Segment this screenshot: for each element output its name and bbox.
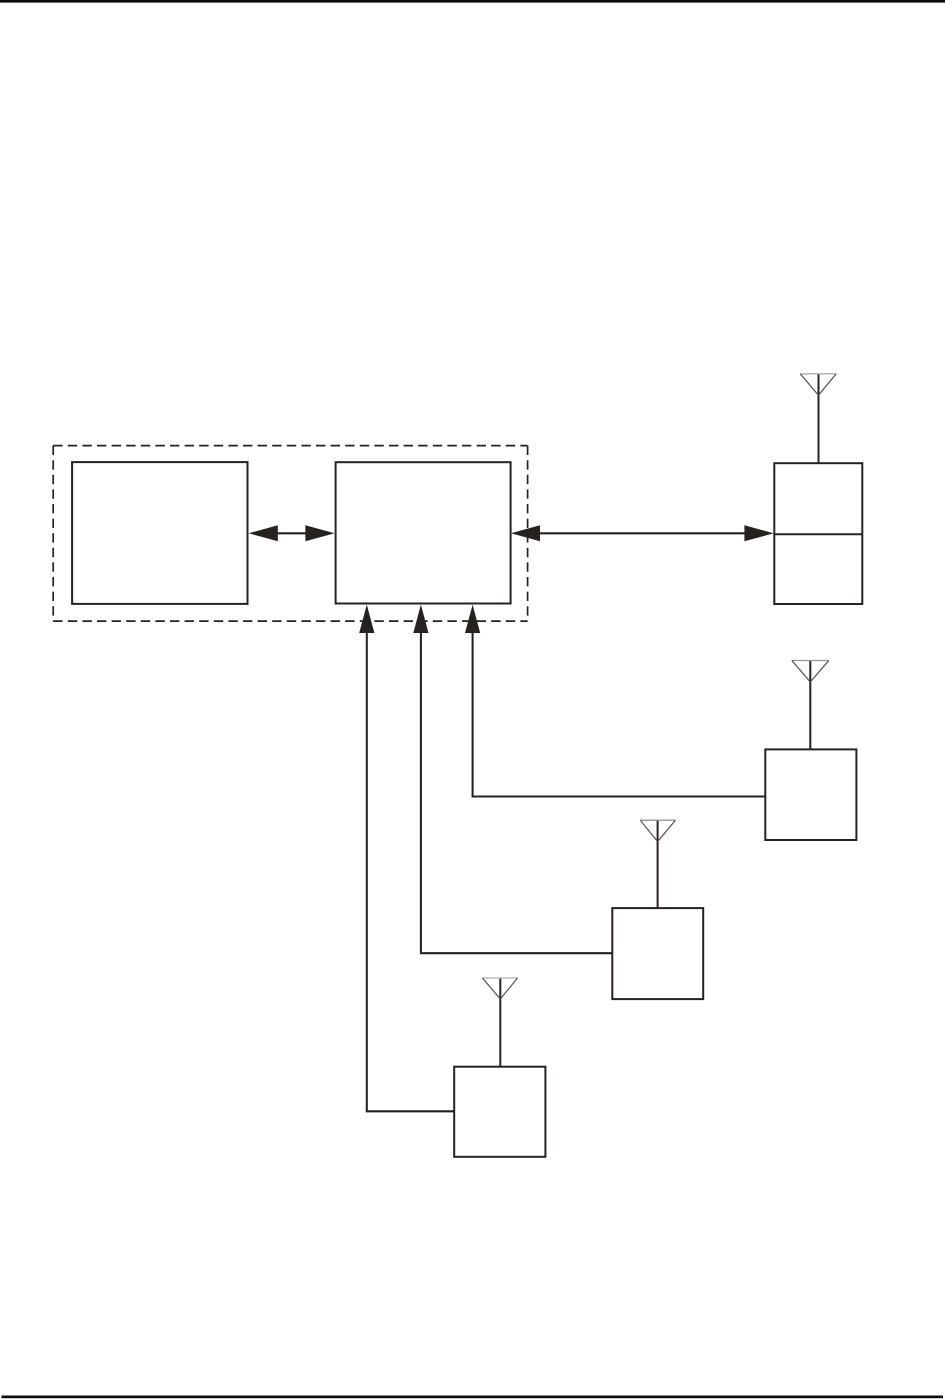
up arrow c into right block (from unit A) xyxy=(465,605,765,797)
left block (controller) xyxy=(72,462,247,604)
bottom page rule xyxy=(2,1396,944,1399)
unit B box xyxy=(612,908,703,999)
wire: double-headed arrow from right block to remote station xyxy=(511,525,774,541)
antenna of unit C xyxy=(482,978,517,1067)
dashed enclosure (system boundary) xyxy=(53,446,527,621)
right block (transceiver unit) xyxy=(336,462,511,603)
unit A box xyxy=(765,749,856,840)
antenna of unit A xyxy=(792,661,829,750)
wire: double-headed arrow between left and right blocks xyxy=(249,525,335,541)
up arrow a into right block (from unit C) xyxy=(359,605,454,1112)
remote station box (two compartments) xyxy=(774,463,862,604)
top page rule xyxy=(0,0,945,3)
up arrow b into right block (from unit B) xyxy=(413,605,612,954)
antenna of remote station xyxy=(800,374,836,463)
unit C box xyxy=(454,1067,545,1157)
antenna of unit B xyxy=(640,820,675,908)
